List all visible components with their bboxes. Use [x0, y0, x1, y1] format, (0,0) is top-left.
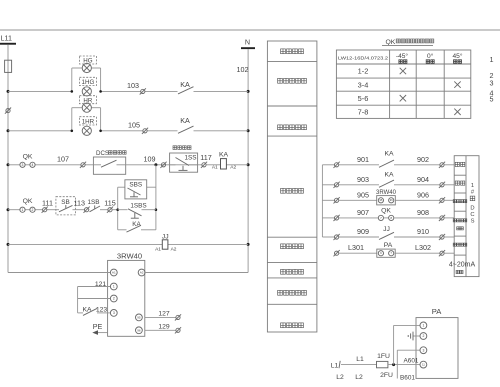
svg-text:#: #	[471, 190, 475, 196]
svg-text:95: 95	[137, 315, 141, 319]
relay coil KA	[206, 152, 248, 171]
svg-text:8: 8	[390, 216, 392, 220]
switch 1SBS (on rung4)	[118, 202, 156, 218]
svg-text:7: 7	[380, 216, 382, 220]
junction dot to start/stop rail	[154, 163, 157, 166]
wire 901 KA contact wire 902 (close signal)	[322, 151, 454, 168]
svg-text:L1: L1	[331, 362, 339, 369]
svg-text:A1: A1	[112, 271, 116, 275]
DCS remote contact box	[93, 150, 126, 174]
wire number 107	[57, 155, 69, 164]
svg-text:SBS: SBS	[129, 181, 142, 188]
svg-text:DCS: DCS	[96, 150, 109, 157]
svg-text:3: 3	[113, 311, 115, 315]
wire L301 PA transducer wire L302 (4-20mA)	[334, 242, 455, 258]
wire number 105	[128, 120, 140, 129]
junction dots rung1 lamp branch	[71, 90, 102, 93]
svg-text:117: 117	[200, 153, 211, 162]
svg-text:907: 907	[357, 208, 369, 217]
svg-text:1: 1	[113, 285, 115, 289]
switch 1SS local start-stop box	[170, 146, 198, 172]
svg-text:3: 3	[422, 348, 424, 352]
svg-text:903: 903	[357, 175, 369, 184]
wire L11 vertical bus	[7, 45, 9, 273]
svg-text:A2: A2	[171, 247, 177, 253]
wire rung4 start-stop circuit	[8, 209, 56, 211]
pin 2 of PA to ground	[413, 333, 427, 340]
svg-text:901: 901	[357, 155, 369, 164]
svg-text:A601: A601	[404, 357, 419, 364]
pin 1 of PA	[394, 322, 427, 329]
svg-text:1SBS: 1SBS	[130, 202, 146, 209]
wire rung1 trip-indication	[8, 90, 248, 92]
svg-text:JJ: JJ	[383, 226, 390, 233]
wire 102 N vertical bus	[237, 49, 249, 272]
wire parallel branch for lamp HG	[72, 68, 101, 91]
wire L1 with fuse 1FU	[331, 353, 420, 370]
junction node after 1FU	[392, 325, 395, 366]
svg-text:2: 2	[32, 208, 34, 212]
svg-text:JJ: JJ	[162, 234, 169, 241]
lamp HG (parallel)	[79, 56, 96, 73]
svg-text:1FU: 1FU	[377, 353, 390, 360]
svg-text:A2: A2	[140, 271, 144, 275]
svg-text:1: 1	[490, 55, 494, 64]
svg-text:KA: KA	[180, 80, 190, 89]
relay coil JJ	[155, 234, 177, 253]
pushbutton 1SB start	[87, 199, 107, 212]
svg-text:129: 129	[158, 323, 170, 330]
wire 907 QK pins 7-8 wire 908 (remote-local position)	[322, 207, 454, 221]
svg-text:105: 105	[128, 120, 140, 129]
wire rung2 run-indication	[8, 130, 248, 132]
svg-text:123: 123	[96, 306, 108, 313]
wire rung3 control circuit	[8, 164, 93, 166]
wire parallel branch for lamp HR	[72, 108, 101, 131]
svg-text:QK: QK	[23, 153, 33, 160]
svg-text:2FU: 2FU	[380, 372, 393, 379]
svg-text:1SS: 1SS	[184, 155, 196, 162]
terminal on wire 127	[175, 314, 181, 320]
pushbutton SB stop box (dashed)	[56, 197, 76, 215]
pin 1 of 3RW40 with wire 121 jumper	[78, 281, 118, 290]
svg-text:107: 107	[57, 155, 69, 164]
parallel rails of seal-in network	[116, 165, 157, 230]
soft starter 3RW40 box	[108, 251, 145, 336]
svg-text:904: 904	[417, 175, 429, 184]
meter PA box	[416, 307, 458, 378]
svg-text:A1: A1	[212, 165, 218, 171]
svg-text:1HG: 1HG	[82, 79, 95, 86]
svg-text:7-8: 7-8	[358, 108, 369, 117]
svg-text:LW12-16D/4.0723.2: LW12-16D/4.0723.2	[338, 55, 388, 61]
svg-text:1: 1	[422, 324, 424, 328]
switch SBS box (remote seal branch)	[118, 180, 156, 199]
svg-text:96: 96	[390, 198, 393, 202]
svg-text:113: 113	[74, 199, 85, 208]
svg-text:2: 2	[422, 334, 424, 338]
table signals to DCS	[449, 156, 479, 277]
svg-text:121: 121	[95, 281, 107, 288]
node N neutral bus label and bar	[241, 37, 255, 49]
svg-text:HG: HG	[83, 58, 92, 65]
svg-text:QK: QK	[381, 207, 391, 214]
wire number 111 and terminal	[42, 199, 53, 213]
lamp HR (parallel)	[79, 96, 96, 113]
svg-text:1: 1	[471, 183, 474, 189]
wire signal common rail	[321, 165, 323, 237]
terminal on wire 103	[140, 88, 146, 94]
svg-text:3-4: 3-4	[358, 80, 369, 89]
svg-text:QK: QK	[386, 39, 396, 46]
svg-text:0°: 0°	[427, 52, 434, 60]
function description column	[267, 41, 317, 332]
wire number 103	[127, 81, 139, 90]
terminal on wire 117	[201, 162, 207, 168]
svg-text:5: 5	[490, 95, 494, 104]
svg-text:1-2: 1-2	[358, 67, 369, 76]
svg-text:N: N	[245, 37, 250, 46]
svg-text:3RW40: 3RW40	[117, 251, 142, 260]
svg-text:L1: L1	[356, 356, 364, 363]
svg-text:L2: L2	[355, 374, 363, 381]
drawing frame top border	[0, 29, 500, 31]
svg-text:KA: KA	[180, 116, 190, 125]
svg-text:HR: HR	[83, 97, 92, 104]
wire number 113 and terminal	[74, 199, 90, 213]
svg-text:908: 908	[417, 208, 429, 217]
svg-text:111: 111	[42, 199, 53, 208]
wire 903 KA contact wire 904 (trip signal)	[322, 172, 454, 188]
ground symbol	[408, 332, 413, 341]
svg-text:L302: L302	[415, 243, 431, 252]
PE protective earth arrow	[92, 322, 107, 335]
svg-text:KA: KA	[219, 152, 229, 159]
svg-text:1SB: 1SB	[87, 199, 99, 206]
svg-text:906: 906	[417, 190, 429, 199]
svg-text:910: 910	[417, 227, 429, 236]
wire L11 bus to 3RW40 pin A1	[8, 272, 110, 274]
wire number 117	[200, 153, 211, 162]
table QK changeover switch contact closure	[336, 39, 470, 119]
svg-text:PE: PE	[93, 322, 103, 331]
svg-text:9: 9	[380, 251, 382, 255]
svg-text:45°: 45°	[453, 52, 463, 60]
lamp 1HR (in series on rung2)	[79, 117, 96, 136]
svg-text:11: 11	[422, 363, 425, 367]
pin A1 of 3RW40	[110, 269, 117, 276]
terminal sequence numbers 1-5	[490, 55, 494, 104]
switch QK pins 3-4 (rung3)	[20, 153, 35, 167]
svg-text:-45°: -45°	[396, 52, 409, 60]
svg-text:4: 4	[32, 163, 34, 167]
svg-text:127: 127	[158, 310, 170, 317]
svg-text:KA: KA	[82, 306, 92, 313]
svg-text:102: 102	[237, 65, 249, 74]
wire 909 JJ contact wire 910 (supply supervision)	[322, 226, 454, 240]
contact KA wire 123 to pin 3 of 3RW40	[78, 306, 118, 316]
wire 905 3RW40 fault contact wire 906	[322, 190, 454, 205]
svg-text:103: 103	[127, 81, 139, 90]
svg-text:905: 905	[357, 190, 369, 199]
svg-text:3: 3	[22, 163, 24, 167]
fuse on L11 bus	[5, 60, 12, 72]
svg-text:S: S	[471, 219, 475, 225]
wire A601 to pin 11 of PA	[404, 357, 427, 368]
junction dots on L11 bus	[7, 90, 10, 246]
svg-text:KA: KA	[384, 151, 394, 158]
svg-text:909: 909	[357, 227, 369, 236]
lamp 1HG (in series on rung1)	[79, 77, 96, 96]
svg-text:QK: QK	[23, 198, 33, 205]
svg-text:D: D	[470, 206, 474, 212]
pin 96 of 3RW40 and wire 129	[136, 323, 176, 333]
svg-text:PA: PA	[432, 307, 443, 316]
svg-text:95: 95	[379, 198, 382, 202]
terminal after 109	[160, 162, 166, 168]
svg-text:SB: SB	[61, 199, 70, 206]
junction dots on N bus	[247, 90, 250, 246]
svg-text:1HR: 1HR	[82, 119, 95, 126]
contact KA (rung1)	[178, 80, 194, 94]
wire bottom rail	[8, 243, 248, 245]
pin 95 of 3RW40 and wire 127	[136, 310, 176, 320]
svg-text:B601: B601	[400, 375, 415, 382]
svg-text:PA: PA	[384, 242, 393, 249]
switch QK pins 1-2 (rung4)	[20, 198, 35, 212]
wire 3RW40 pin A2 to N bus	[145, 272, 248, 274]
svg-text:L11: L11	[1, 34, 12, 43]
contact KA seal-in branch	[118, 221, 156, 232]
svg-text:C: C	[470, 212, 474, 218]
terminal on wire 107	[80, 162, 86, 168]
wire L2 with fuse 2FU and wire B601	[336, 372, 415, 382]
node L11 phase bus label and bar	[0, 34, 16, 45]
terminal on L11 bus wire 101	[5, 108, 11, 114]
terminal on wire 105	[142, 128, 148, 134]
contact KA (rung2)	[178, 116, 194, 133]
wire number 115 and terminal	[104, 199, 117, 213]
jumper rail and pin 2 of 3RW40	[78, 287, 118, 313]
svg-text:L2: L2	[336, 374, 344, 381]
svg-text:A2: A2	[230, 165, 236, 171]
svg-text:L301: L301	[348, 243, 364, 252]
pin 3 of PA fed from wire B601	[397, 347, 427, 379]
terminal on wire 129	[175, 327, 181, 333]
svg-text:A1: A1	[155, 247, 161, 253]
svg-text:115: 115	[104, 199, 115, 208]
junction dots rung2 lamp branch	[71, 130, 102, 133]
svg-text:5-6: 5-6	[358, 94, 369, 103]
svg-text:7: 7	[390, 251, 392, 255]
svg-text:KA: KA	[384, 172, 394, 179]
svg-text:902: 902	[417, 155, 429, 164]
svg-text:4~20mA: 4~20mA	[449, 262, 476, 269]
svg-text:1: 1	[22, 208, 24, 212]
svg-text:3: 3	[490, 79, 494, 88]
svg-text:109: 109	[144, 155, 156, 164]
svg-text:96: 96	[137, 328, 141, 332]
pin A2 of 3RW40	[138, 269, 145, 276]
svg-text:2: 2	[113, 297, 115, 301]
wire number 109	[126, 155, 202, 165]
